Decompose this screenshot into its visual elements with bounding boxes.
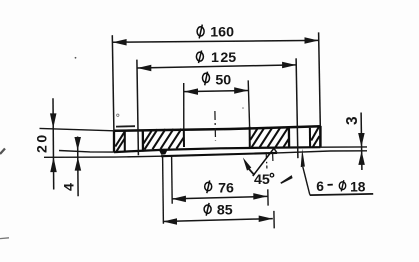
hatch block H2 stroke a (144, 130, 153, 143)
phi125 left arrowhead (137, 65, 151, 72)
svg-text:4: 4 (62, 183, 78, 191)
phi76 value label (205, 180, 234, 196)
svg-text:160: 160 (210, 25, 234, 41)
dim 3 dimension line (360, 113, 363, 171)
left bolt hole right edge (142, 131, 144, 152)
phi160 left arrowhead (113, 39, 127, 46)
svg-text:85: 85 (217, 203, 233, 219)
phi160 dimension line (113, 40, 319, 42)
dim 20 dimension line (52, 98, 55, 189)
45deg value label (254, 172, 274, 188)
phi85 right extension dash near flange (272, 153, 274, 161)
phi76 right extension tick (267, 189, 269, 205)
hatch block H2 stroke e (169, 129, 182, 149)
6-phi18 value label (316, 179, 365, 195)
svg-text:125: 125 (211, 50, 236, 66)
hatch block H1 stroke a (115, 132, 124, 146)
phi125 right extension / right bolt hole centreline (296, 58, 298, 158)
phi50 left extension / centre hole left edge (183, 83, 185, 129)
dim 4 lower arrowhead (75, 157, 82, 171)
svg-text:18: 18 (350, 180, 366, 195)
hatch block H3 stroke d (268, 127, 281, 147)
bottom lower extension line toward 3 dim (277, 151, 367, 153)
phi85 left arrowhead (163, 218, 177, 225)
phi125 left extension / left bolt hole centreline (137, 60, 139, 156)
6-phi18 leader arrowhead (301, 149, 305, 167)
45deg right dash (280, 175, 292, 184)
hatch block H2 stroke d (161, 129, 174, 149)
hatch block H2 stroke b (145, 129, 158, 149)
phi85 dimension line (163, 219, 273, 222)
raised face bottom surface (161, 153, 277, 156)
top surface doubled scan line over left bolt hole (116, 125, 135, 127)
flange left edge (113, 130, 115, 152)
right bolt hole left edge (288, 128, 291, 148)
hatch block H3 stroke c (260, 127, 273, 147)
hatch block H3 stroke f (284, 139, 289, 147)
phi50 right extension / centre hole right edge (248, 80, 249, 126)
phi50 right arrowhead (234, 87, 248, 94)
hatch block H2 stroke c (153, 129, 166, 149)
phi125 right arrowhead (282, 62, 296, 69)
svg-text:6: 6 (316, 179, 324, 194)
dim 4 upper arrowhead (74, 137, 81, 151)
right step chamfer of raised face (274, 148, 278, 153)
hatch block H4 stroke b (313, 136, 320, 147)
hatch block H3 stroke e (276, 127, 289, 147)
phi76 right extension dashes near flange (265, 152, 267, 159)
dim 20 lower arrowhead (50, 157, 57, 172)
svg-text:76: 76 (218, 180, 234, 196)
phi85 right extension tick (273, 211, 275, 229)
phi76 dimension line (172, 196, 268, 199)
flange top surface (114, 126, 320, 131)
svg-text:50: 50 (215, 72, 231, 88)
phi76 right arrowhead (253, 193, 267, 200)
phi85 left extension line (162, 156, 165, 224)
bottom upper extension line toward 3 dim (320, 146, 367, 148)
phi160 left extension line (112, 35, 114, 130)
bottom extension line toward 20 and 4 dims (44, 156, 161, 157)
svg-text:3: 3 (344, 116, 361, 125)
left bolt hole left edge (124, 131, 126, 152)
phi50 value label (203, 72, 232, 89)
phi50 left arrowhead (184, 88, 198, 95)
45deg arc arrowhead (243, 158, 251, 171)
phi50 dimension line (184, 91, 248, 92)
right bolt hole right edge (309, 128, 311, 148)
flange right edge (319, 126, 322, 147)
phi160 right extension line (319, 32, 321, 126)
phi85 right arrowhead (259, 215, 273, 222)
axis centreline (214, 111, 217, 141)
phi125 dimension line (137, 65, 296, 68)
dim 3 upper arrowhead (358, 133, 365, 147)
left step chamfer of raised face (159, 149, 168, 154)
phi85 value label (204, 203, 233, 219)
hatch block H3 stroke b (252, 128, 265, 148)
phi160 value label (197, 25, 234, 41)
phi125 value label (196, 50, 236, 66)
45deg chamfer extension line (253, 148, 275, 177)
flange bottom surface (114, 147, 320, 152)
svg-text:20: 20 (34, 132, 50, 153)
hatch block H4 stroke a (311, 127, 319, 141)
phi160 right arrowhead (305, 37, 319, 44)
phi76 left arrowhead (172, 196, 186, 203)
dim 20 upper arrowhead (50, 113, 57, 128)
6-phi18 leader line (303, 167, 310, 195)
hatch block H3 stroke a (250, 128, 258, 140)
svg-text:45: 45 (254, 172, 270, 188)
dim 20 top tick / top surface extension (40, 128, 115, 130)
dim 3 lower arrowhead (358, 151, 365, 165)
45deg arc arrow tail (249, 169, 255, 175)
hatch block H1 stroke b (117, 139, 125, 152)
6-phi18 leader underline (310, 194, 374, 195)
hatch block H2 stroke f (177, 138, 184, 149)
phi76 left extension line (171, 156, 174, 204)
bottom upper extension line toward 4 dim (59, 151, 114, 153)
dim 4 dimension line (77, 137, 80, 197)
